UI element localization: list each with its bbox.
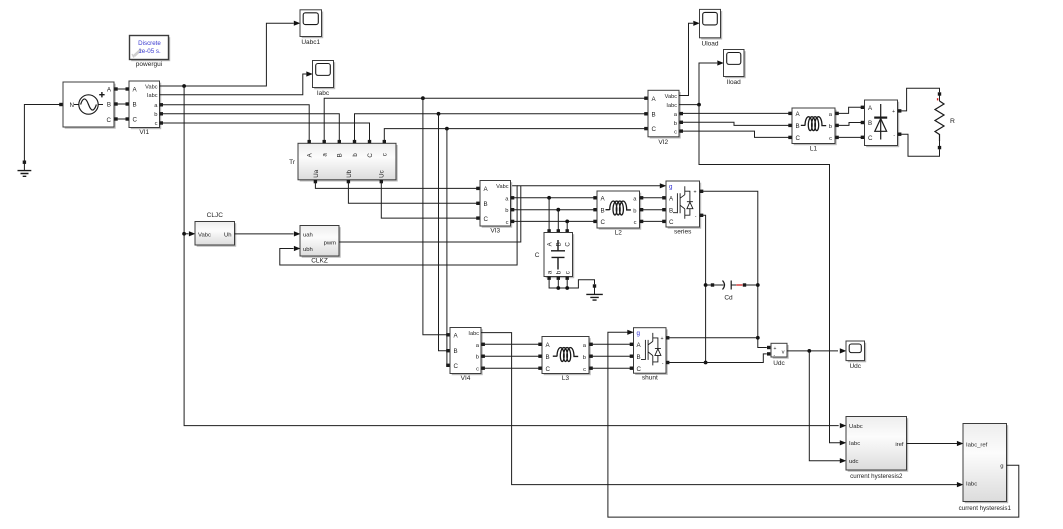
wire VI2 Vabc to scope Uload — [679, 21, 700, 96]
svg-text:N: N — [70, 102, 74, 109]
svg-text:C: C — [652, 126, 657, 133]
svg-text:Iabc: Iabc — [468, 331, 479, 337]
svg-text:L1: L1 — [810, 145, 818, 152]
svg-text:Udc: Udc — [849, 363, 861, 370]
svg-text:C: C — [367, 153, 374, 158]
svg-text:B: B — [796, 123, 800, 130]
svg-text:c: c — [382, 153, 389, 156]
svg-text:Vabc: Vabc — [496, 184, 509, 190]
svg-text:current hysteresis1: current hysteresis1 — [959, 505, 1012, 512]
svg-text:+: + — [892, 109, 895, 115]
svg-text:-: - — [695, 214, 697, 220]
svg-text:Tr: Tr — [289, 159, 296, 166]
wire VI2 Iabc to scope Iload and down — [679, 60, 846, 445]
svg-text:Cd: Cd — [724, 295, 733, 302]
svg-text:C: C — [454, 363, 459, 370]
svg-text:+: + — [660, 336, 663, 342]
three-phase VI measurement VI1 — [126, 81, 164, 136]
svg-text:Vabc: Vabc — [665, 94, 678, 100]
inductor L3 — [538, 337, 593, 382]
svg-text:C: C — [601, 219, 606, 226]
svg-text:c: c — [674, 130, 677, 136]
wire L1 to rectifier — [835, 107, 862, 113]
svg-text:Uh: Uh — [224, 232, 232, 238]
svg-text:C: C — [796, 135, 801, 142]
svg-text:VI1: VI1 — [139, 129, 149, 136]
scope Udc — [846, 341, 866, 370]
svg-text:series: series — [674, 229, 692, 236]
wire shunt - to Udc measurement — [666, 354, 767, 363]
svg-text:C: C — [546, 366, 551, 373]
controller current hysteresis2 — [846, 417, 908, 480]
wire VI3 c to L2 C — [511, 220, 596, 224]
controller current hysteresis1 — [959, 424, 1012, 512]
svg-text:b: b — [583, 355, 586, 361]
svg-text:L3: L3 — [562, 375, 570, 382]
svg-text:c: c — [565, 271, 572, 274]
wire rectifier - to load R — [898, 134, 940, 156]
svg-text:B: B — [337, 153, 344, 157]
wire VI4 to L3 — [481, 344, 540, 368]
svg-text:c: c — [634, 220, 637, 226]
wire Tr Ua to VI3 A — [315, 182, 477, 188]
svg-text:Discrete: Discrete — [138, 40, 161, 47]
wire VI1 Iabc to scope Iabc — [160, 71, 313, 94]
svg-text:a: a — [322, 153, 329, 157]
wire Udc tap down to current hysteresis2 udc — [809, 351, 846, 463]
svg-text:VI2: VI2 — [658, 139, 668, 146]
ground — [18, 161, 32, 177]
ground of capacitor C — [586, 284, 603, 300]
svg-text:B: B — [133, 102, 137, 109]
wire phase a to transformer — [160, 105, 310, 141]
svg-text:Ua: Ua — [313, 169, 320, 177]
svg-text:Udc: Udc — [773, 360, 785, 367]
wire L3 to shunt converter — [589, 344, 632, 368]
shunt converter (IGBT bridge) — [630, 328, 670, 382]
svg-text:C: C — [868, 135, 873, 142]
svg-text:Uabc: Uabc — [849, 424, 863, 430]
svg-text:Uload: Uload — [702, 40, 719, 47]
svg-text:1e-05 s.: 1e-05 s. — [138, 48, 161, 55]
svg-text:Iabc: Iabc — [849, 441, 860, 447]
svg-text:c: c — [506, 220, 509, 226]
svg-text:Iabc: Iabc — [317, 90, 330, 97]
svg-text:C: C — [565, 242, 572, 247]
svg-text:b: b — [674, 121, 677, 127]
svg-text:g: g — [1000, 464, 1003, 470]
svg-text:L2: L2 — [615, 229, 623, 236]
svg-text:powergui: powergui — [136, 61, 162, 68]
svg-text:g: g — [637, 330, 641, 337]
svg-text:C: C — [133, 117, 138, 124]
wire phase b to transformer — [160, 114, 340, 141]
load resistor R — [935, 92, 955, 149]
svg-text:B: B — [669, 207, 673, 214]
svg-text:Vabc: Vabc — [198, 232, 211, 238]
wire VI3 Vabc feedback to CLKZ ubh — [280, 186, 517, 265]
controller CLKZ — [300, 226, 341, 265]
powergui block — [130, 36, 171, 68]
wire CLKZ pwm to series gate g — [339, 183, 666, 242]
svg-text:R: R — [950, 118, 955, 125]
wire VI2 a to L1 A — [679, 112, 790, 114]
wire CLJC Uh to CLKZ uah — [235, 231, 301, 236]
wire Udc v to scope Udc — [787, 348, 846, 353]
wire current hysteresis1 g to shunt gate — [608, 330, 1019, 517]
svg-text:a: a — [547, 270, 554, 274]
wire VI1 Vabc to scope Uabc1 — [160, 21, 301, 88]
svg-text:current hysteresis2: current hysteresis2 — [850, 473, 903, 480]
svg-text:Iabc_ref: Iabc_ref — [966, 442, 988, 448]
svg-text:C: C — [535, 252, 540, 259]
svg-text:CLJC: CLJC — [207, 212, 224, 219]
wire VI2 b to L1 B — [679, 122, 790, 125]
scope Uabc1 — [300, 10, 323, 46]
wire ground to source N — [24, 105, 60, 163]
svg-text:c: c — [155, 121, 158, 127]
wire Tr Uc to VI3 C — [381, 182, 477, 218]
svg-text:Iabc: Iabc — [147, 93, 158, 99]
svg-text:B: B — [601, 207, 605, 214]
svg-text:b: b — [352, 153, 359, 157]
svg-text:C: C — [637, 366, 642, 373]
svg-text:B: B — [652, 111, 656, 118]
svg-text:udc: udc — [849, 459, 859, 465]
wire source to VI1 (3 phases) — [114, 89, 129, 119]
diode rectifier bridge — [861, 100, 902, 147]
svg-text:Vabc: Vabc — [145, 84, 158, 90]
series converter (IGBT bridge) — [662, 181, 703, 236]
svg-text:VI3: VI3 — [490, 227, 500, 234]
wire VI4 Iabc to current hysteresis1 Iabc — [481, 333, 963, 488]
svg-text:b: b — [633, 208, 636, 214]
svg-text:C: C — [107, 117, 112, 124]
wire taps to capacitor C — [549, 198, 567, 230]
wire capacitor C to ground — [549, 280, 594, 290]
svg-text:Ub: Ub — [346, 169, 353, 177]
svg-text:B: B — [868, 120, 872, 127]
svg-text:b: b — [556, 270, 563, 274]
wire VI3 a to L2 A — [511, 196, 596, 200]
svg-text:Iabc: Iabc — [666, 103, 677, 109]
voltage measurement Udc — [767, 343, 789, 367]
svg-text:Uc: Uc — [379, 170, 386, 178]
three-phase capacitor C — [535, 229, 574, 280]
three-phase VI measurement VI3 — [476, 181, 514, 235]
svg-text:Iabc: Iabc — [966, 482, 977, 488]
svg-text:+: + — [774, 346, 777, 352]
svg-text:CLKZ: CLKZ — [311, 258, 328, 265]
svg-text:b: b — [829, 124, 832, 130]
wire Tr secondary b to VI2 B — [355, 112, 646, 141]
series transformer Tr — [289, 140, 398, 183]
svg-text:b: b — [476, 355, 479, 361]
svg-text:VI4: VI4 — [461, 375, 471, 382]
three-phase VI measurement VI4 — [446, 328, 485, 382]
wire Tr Ub to VI3 B — [348, 182, 477, 203]
wire series - to DC bus — [700, 215, 708, 364]
svg-text:uah: uah — [303, 233, 313, 239]
wire tap to VI4 A — [423, 98, 447, 335]
controller CLJC — [184, 212, 236, 247]
inductor L1 — [788, 108, 839, 152]
svg-text:B: B — [546, 354, 550, 361]
wire series + to DC bus — [700, 191, 767, 347]
wire VI1 Vabc tap down to CLJC and current hysteresis2 Uabc — [182, 86, 846, 428]
svg-text:Uabc1: Uabc1 — [301, 39, 320, 46]
svg-text:v: v — [782, 349, 785, 355]
scope Iload — [724, 50, 746, 86]
wire phase c to transformer — [160, 123, 370, 141]
wire VI3 b to L2 B — [511, 208, 596, 212]
svg-text:b: b — [154, 112, 157, 118]
svg-text:B: B — [484, 201, 488, 208]
svg-text:iref: iref — [895, 442, 904, 448]
svg-text:B: B — [556, 242, 563, 246]
wire shunt + to Udc measurement — [666, 337, 758, 339]
wire tap to VI4 B — [439, 114, 448, 351]
wire L2 to series converter — [640, 198, 665, 222]
wire rectifier + to load R — [898, 88, 940, 111]
wire Tr secondary a to VI2 A — [324, 96, 645, 141]
svg-text:B: B — [454, 348, 458, 355]
svg-text:-: - — [662, 361, 664, 367]
svg-text:g: g — [669, 183, 673, 190]
scope Iabc — [313, 61, 336, 98]
wire Tr secondary c to VI2 C — [384, 127, 645, 141]
wire VI2 c to L1 C — [679, 131, 790, 137]
svg-text:shunt: shunt — [642, 375, 658, 382]
svg-text:Iload: Iload — [727, 79, 741, 86]
svg-text:c: c — [583, 367, 586, 373]
svg-text:B: B — [637, 354, 641, 361]
svg-text:C: C — [484, 216, 489, 223]
svg-text:+: + — [693, 190, 696, 196]
svg-text:B: B — [107, 102, 111, 109]
three-phase VI measurement VI2 — [644, 90, 683, 146]
DC capacitor Cd — [706, 281, 758, 302]
svg-text:c: c — [476, 367, 479, 373]
inductor L2 — [593, 191, 643, 236]
three-phase source — [59, 82, 118, 129]
svg-text:c: c — [829, 136, 832, 142]
wire tap to VI4 C — [446, 129, 448, 366]
svg-text:C: C — [669, 219, 674, 226]
svg-text:pwm: pwm — [324, 241, 337, 247]
svg-text:b: b — [505, 208, 508, 214]
wire iref to Iabc_ref — [907, 441, 964, 446]
scope Uload — [700, 9, 723, 47]
svg-text:ubh: ubh — [303, 247, 313, 253]
